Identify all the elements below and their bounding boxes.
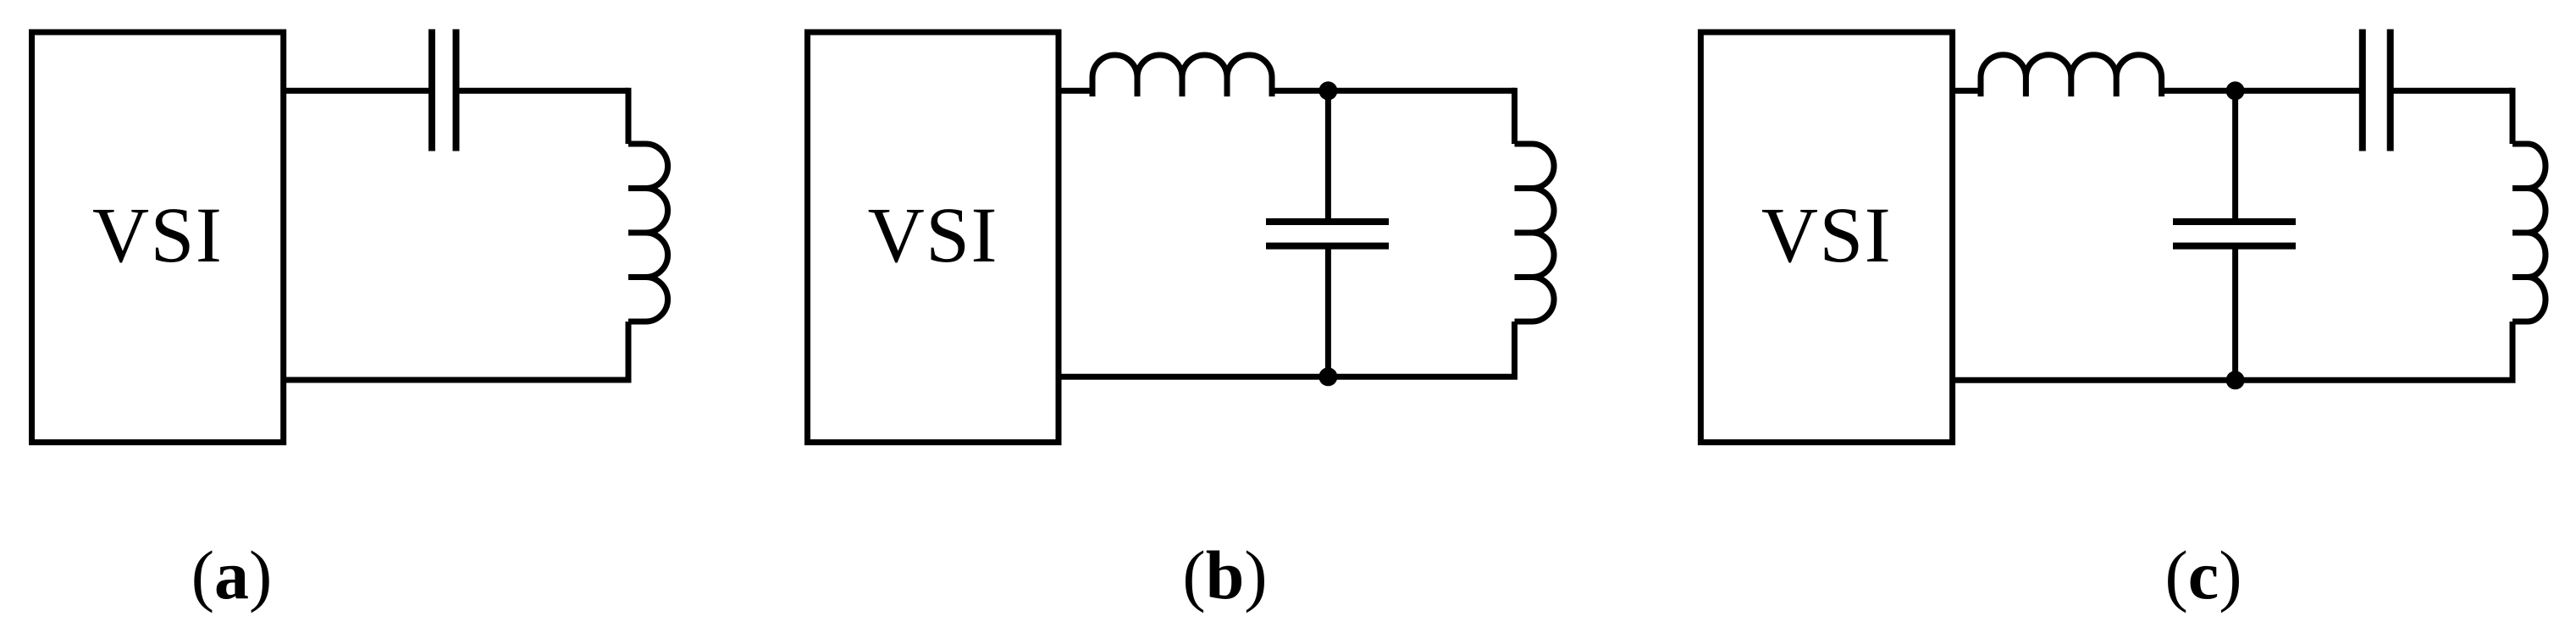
- svg-text:(b): (b): [1182, 536, 1267, 613]
- svg-text:VSI: VSI: [92, 192, 223, 279]
- svg-text:(a): (a): [191, 536, 273, 613]
- svg-text:VSI: VSI: [868, 192, 998, 279]
- svg-text:(c): (c): [2164, 536, 2242, 613]
- svg-text:VSI: VSI: [1761, 192, 1892, 279]
